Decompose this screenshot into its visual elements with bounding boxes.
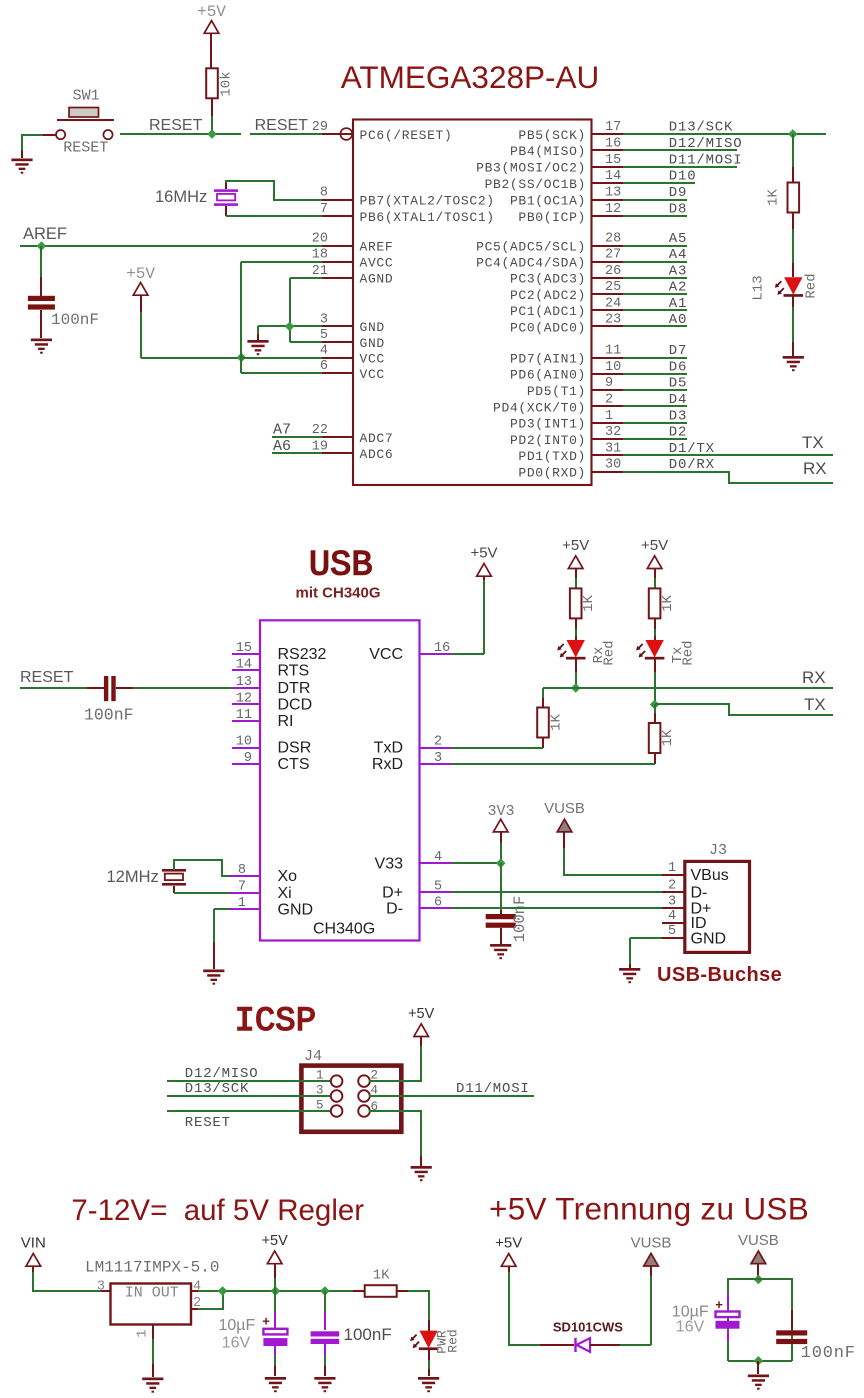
svg-text:100nF: 100nF xyxy=(51,311,99,329)
svg-text:1K: 1K xyxy=(549,714,565,731)
svg-text:10: 10 xyxy=(236,734,252,749)
svg-text:RESET: RESET xyxy=(20,669,74,686)
svg-text:32: 32 xyxy=(605,425,621,440)
svg-text:15: 15 xyxy=(605,153,621,168)
svg-text:GND: GND xyxy=(691,930,727,947)
svg-text:D7: D7 xyxy=(669,343,687,359)
svg-text:A1: A1 xyxy=(669,296,687,312)
svg-text:AVCC: AVCC xyxy=(360,256,394,271)
svg-text:LM1117IMPX-5.0: LM1117IMPX-5.0 xyxy=(85,1259,219,1277)
svg-text:13: 13 xyxy=(236,675,252,690)
svg-text:26: 26 xyxy=(605,264,621,279)
svg-text:D2: D2 xyxy=(669,425,687,441)
svg-text:29: 29 xyxy=(312,120,328,135)
svg-text:100nF: 100nF xyxy=(511,896,529,943)
svg-text:+5V: +5V xyxy=(126,265,155,283)
svg-text:16: 16 xyxy=(605,136,621,151)
svg-text:VUSB: VUSB xyxy=(738,1232,779,1249)
svg-text:PD4(XCK/T0): PD4(XCK/T0) xyxy=(493,400,586,415)
svg-text:8: 8 xyxy=(320,186,328,201)
svg-text:VBus: VBus xyxy=(691,867,729,884)
svg-text:100nF: 100nF xyxy=(344,1325,392,1344)
svg-text:Xo: Xo xyxy=(278,868,298,885)
svg-text:PB6(XTAL1/TOSC1): PB6(XTAL1/TOSC1) xyxy=(360,210,495,225)
svg-text:11: 11 xyxy=(605,344,621,359)
svg-text:D-: D- xyxy=(691,885,708,902)
svg-text:5: 5 xyxy=(316,1098,324,1112)
svg-text:TX: TX xyxy=(802,433,824,452)
svg-text:ADC7: ADC7 xyxy=(360,431,394,446)
svg-text:D9: D9 xyxy=(669,185,687,201)
svg-text:D+: D+ xyxy=(382,885,403,902)
svg-text:9: 9 xyxy=(244,751,252,766)
svg-text:27: 27 xyxy=(605,248,621,263)
svg-text:D5: D5 xyxy=(669,376,687,392)
svg-text:Red: Red xyxy=(804,273,820,298)
svg-text:L13: L13 xyxy=(751,275,767,300)
svg-text:3: 3 xyxy=(320,312,328,327)
svg-text:SW1: SW1 xyxy=(73,88,100,105)
svg-text:100nF: 100nF xyxy=(801,1344,856,1363)
svg-text:6: 6 xyxy=(434,895,442,910)
svg-text:D12/MISO: D12/MISO xyxy=(185,1066,259,1082)
svg-text:+5V: +5V xyxy=(408,1006,435,1022)
svg-text:22: 22 xyxy=(312,423,328,438)
svg-text:14: 14 xyxy=(605,169,621,184)
svg-text:+5V: +5V xyxy=(562,537,589,554)
svg-text:Red: Red xyxy=(446,1329,461,1352)
svg-text:A0: A0 xyxy=(669,312,687,328)
svg-text:RI: RI xyxy=(278,713,294,730)
svg-text:A4: A4 xyxy=(669,247,687,263)
svg-text:Red: Red xyxy=(681,640,697,665)
svg-text:ICSP: ICSP xyxy=(235,1003,317,1041)
svg-text:2: 2 xyxy=(434,734,442,749)
svg-text:19: 19 xyxy=(312,439,328,454)
svg-text:3: 3 xyxy=(316,1083,324,1097)
svg-text:PC1(ADC1): PC1(ADC1) xyxy=(510,304,586,319)
svg-text:17: 17 xyxy=(605,120,621,135)
svg-text:PB2(SS/OC1B): PB2(SS/OC1B) xyxy=(485,177,586,192)
svg-text:30: 30 xyxy=(605,458,621,473)
svg-text:1: 1 xyxy=(605,409,613,424)
svg-text:GND: GND xyxy=(278,901,314,918)
svg-text:mit CH340G: mit CH340G xyxy=(295,584,380,601)
svg-text:+: + xyxy=(262,1314,270,1329)
svg-text:D8: D8 xyxy=(669,202,687,218)
svg-text:PB1(OC1A): PB1(OC1A) xyxy=(510,193,586,208)
svg-text:3: 3 xyxy=(668,895,676,910)
svg-text:25: 25 xyxy=(605,280,621,295)
svg-text:CTS: CTS xyxy=(278,756,310,773)
svg-text:GND: GND xyxy=(360,320,385,335)
svg-text:16MHz: 16MHz xyxy=(155,188,207,206)
svg-text:D13/SCK: D13/SCK xyxy=(669,120,733,136)
svg-text:3: 3 xyxy=(97,1280,105,1295)
svg-text:1K: 1K xyxy=(660,729,676,746)
svg-text:7: 7 xyxy=(320,202,328,217)
svg-text:PB7(XTAL2/TOSC2): PB7(XTAL2/TOSC2) xyxy=(360,193,495,208)
svg-text:8: 8 xyxy=(238,863,246,878)
svg-text:+5V: +5V xyxy=(641,537,668,554)
svg-text:4: 4 xyxy=(434,850,442,865)
svg-text:RTS: RTS xyxy=(278,663,310,680)
svg-text:AGND: AGND xyxy=(360,272,394,287)
svg-text:D11/MOSI: D11/MOSI xyxy=(669,152,743,168)
svg-text:1: 1 xyxy=(316,1068,324,1082)
svg-text:TX: TX xyxy=(804,695,826,714)
svg-text:D10: D10 xyxy=(669,169,697,185)
svg-text:RS232: RS232 xyxy=(278,646,327,663)
svg-text:D11/MOSI: D11/MOSI xyxy=(456,1081,530,1097)
svg-text:20: 20 xyxy=(312,232,328,247)
svg-text:AREF: AREF xyxy=(23,225,67,243)
svg-text:RX: RX xyxy=(802,668,826,687)
svg-text:9: 9 xyxy=(605,376,613,391)
svg-text:28: 28 xyxy=(605,232,621,247)
svg-text:3: 3 xyxy=(434,751,442,766)
svg-text:PD2(INT0): PD2(INT0) xyxy=(510,433,586,448)
svg-text:4: 4 xyxy=(193,1280,201,1295)
svg-text:USB: USB xyxy=(309,545,373,586)
svg-text:A5: A5 xyxy=(669,231,687,247)
svg-text:14: 14 xyxy=(236,657,252,672)
svg-text:Red: Red xyxy=(602,640,618,665)
svg-text:+5V: +5V xyxy=(495,1235,522,1252)
svg-text:D0/RX: D0/RX xyxy=(669,457,715,473)
svg-text:1K: 1K xyxy=(766,189,782,206)
svg-text:D1/TX: D1/TX xyxy=(669,441,715,457)
svg-text:TxD: TxD xyxy=(374,740,403,757)
svg-text:4: 4 xyxy=(668,909,676,924)
svg-text:PD5(T1): PD5(T1) xyxy=(527,384,586,399)
svg-text:CH340G: CH340G xyxy=(313,921,375,938)
svg-text:PC6(/RESET): PC6(/RESET) xyxy=(360,128,453,143)
svg-text:VIN: VIN xyxy=(21,1235,46,1252)
svg-text:J4: J4 xyxy=(304,1048,322,1065)
svg-text:13: 13 xyxy=(605,186,621,201)
svg-text:5: 5 xyxy=(434,879,442,894)
svg-text:RxD: RxD xyxy=(372,756,403,773)
svg-text:D4: D4 xyxy=(669,392,687,408)
svg-text:10k: 10k xyxy=(219,71,235,96)
svg-text:+: + xyxy=(715,1297,723,1312)
svg-text:RESET: RESET xyxy=(185,1115,231,1131)
svg-text:1K: 1K xyxy=(581,595,597,612)
svg-text:5: 5 xyxy=(320,328,328,343)
svg-text:100nF: 100nF xyxy=(84,706,134,725)
svg-text:VUSB: VUSB xyxy=(631,1234,672,1251)
svg-text:PB4(MISO): PB4(MISO) xyxy=(510,144,586,159)
svg-text:PC2(ADC2): PC2(ADC2) xyxy=(510,288,586,303)
svg-text:PB5(SCK): PB5(SCK) xyxy=(518,128,586,143)
svg-text:VUSB: VUSB xyxy=(544,800,585,817)
svg-text:PC4(ADC4/SDA): PC4(ADC4/SDA) xyxy=(476,256,586,271)
svg-text:+5V: +5V xyxy=(262,1233,289,1249)
svg-text:SD101CWS: SD101CWS xyxy=(553,1320,623,1335)
svg-text:PD7(AIN1): PD7(AIN1) xyxy=(510,351,586,366)
svg-text:2: 2 xyxy=(605,393,613,408)
svg-text:DTR: DTR xyxy=(278,680,311,697)
svg-text:PC5(ADC5/SCL): PC5(ADC5/SCL) xyxy=(476,239,586,254)
svg-text:AREF: AREF xyxy=(360,239,394,254)
svg-text:16V: 16V xyxy=(676,1319,705,1336)
svg-text:21: 21 xyxy=(312,264,328,279)
svg-text:A3: A3 xyxy=(669,263,687,279)
svg-text:+5V Trennung zu USB: +5V Trennung zu USB xyxy=(489,1190,809,1226)
svg-text:15: 15 xyxy=(236,641,252,656)
svg-text:VCC: VCC xyxy=(360,367,385,382)
svg-text:IN OUT: IN OUT xyxy=(125,1285,179,1302)
svg-text:A2: A2 xyxy=(669,280,687,296)
svg-text:7-12V= auf 5V Regler: 7-12V= auf 5V Regler xyxy=(71,1194,364,1227)
svg-text:PC3(ADC3): PC3(ADC3) xyxy=(510,272,586,287)
svg-text:D6: D6 xyxy=(669,359,687,375)
svg-text:4: 4 xyxy=(320,344,328,359)
svg-text:D13/SCK: D13/SCK xyxy=(185,1081,249,1097)
svg-text:PD6(AIN0): PD6(AIN0) xyxy=(510,368,586,383)
svg-text:USB-Buchse: USB-Buchse xyxy=(657,964,782,986)
svg-text:1K: 1K xyxy=(373,1268,390,1284)
svg-text:A7: A7 xyxy=(273,422,291,439)
svg-text:PC0(ADC0): PC0(ADC0) xyxy=(510,320,586,335)
svg-text:PD3(INT1): PD3(INT1) xyxy=(510,417,586,432)
svg-text:VCC: VCC xyxy=(360,351,385,366)
svg-text:1: 1 xyxy=(136,1329,151,1337)
svg-text:DSR: DSR xyxy=(278,740,312,757)
svg-text:31: 31 xyxy=(605,441,621,456)
svg-text:V33: V33 xyxy=(375,855,404,872)
svg-text:11: 11 xyxy=(236,708,252,723)
svg-text:24: 24 xyxy=(605,296,621,311)
svg-text:RESET: RESET xyxy=(63,140,108,157)
svg-text:PB0(ICP): PB0(ICP) xyxy=(518,210,586,225)
svg-text:D-: D- xyxy=(386,901,403,918)
svg-text:DCD: DCD xyxy=(278,697,313,714)
svg-text:1K: 1K xyxy=(660,595,676,612)
svg-text:16V: 16V xyxy=(222,1335,251,1352)
svg-text:+5V: +5V xyxy=(197,3,226,21)
svg-text:Xi: Xi xyxy=(278,885,292,902)
svg-text:RESET: RESET xyxy=(255,117,309,134)
svg-text:VCC: VCC xyxy=(369,646,403,663)
svg-text:ATMEGA328P-AU: ATMEGA328P-AU xyxy=(341,59,600,95)
svg-text:23: 23 xyxy=(605,313,621,328)
svg-text:PB3(MOSI/OC2): PB3(MOSI/OC2) xyxy=(476,161,586,176)
svg-text:+5V: +5V xyxy=(470,545,497,562)
svg-text:16: 16 xyxy=(434,641,450,656)
svg-text:J3: J3 xyxy=(709,842,727,859)
svg-text:12: 12 xyxy=(236,691,252,706)
svg-text:RX: RX xyxy=(803,459,827,478)
svg-text:12MHz: 12MHz xyxy=(107,868,159,886)
svg-text:3V3: 3V3 xyxy=(487,803,514,820)
svg-text:PD1(TXD): PD1(TXD) xyxy=(518,449,586,464)
svg-text:10µF: 10µF xyxy=(219,1317,256,1334)
svg-text:D3: D3 xyxy=(669,408,687,424)
svg-text:7: 7 xyxy=(238,879,246,894)
svg-text:RESET: RESET xyxy=(149,117,203,134)
svg-text:12: 12 xyxy=(605,202,621,217)
svg-text:GND: GND xyxy=(360,336,385,351)
svg-text:PD0(RXD): PD0(RXD) xyxy=(518,466,586,481)
svg-text:D12/MISO: D12/MISO xyxy=(669,136,743,152)
svg-text:1: 1 xyxy=(238,896,246,911)
svg-text:1: 1 xyxy=(668,861,676,876)
svg-text:2: 2 xyxy=(668,879,676,894)
svg-text:10: 10 xyxy=(605,360,621,375)
svg-text:6: 6 xyxy=(320,359,328,374)
svg-text:18: 18 xyxy=(312,248,328,263)
svg-text:ADC6: ADC6 xyxy=(360,447,394,462)
svg-text:5: 5 xyxy=(668,924,676,939)
